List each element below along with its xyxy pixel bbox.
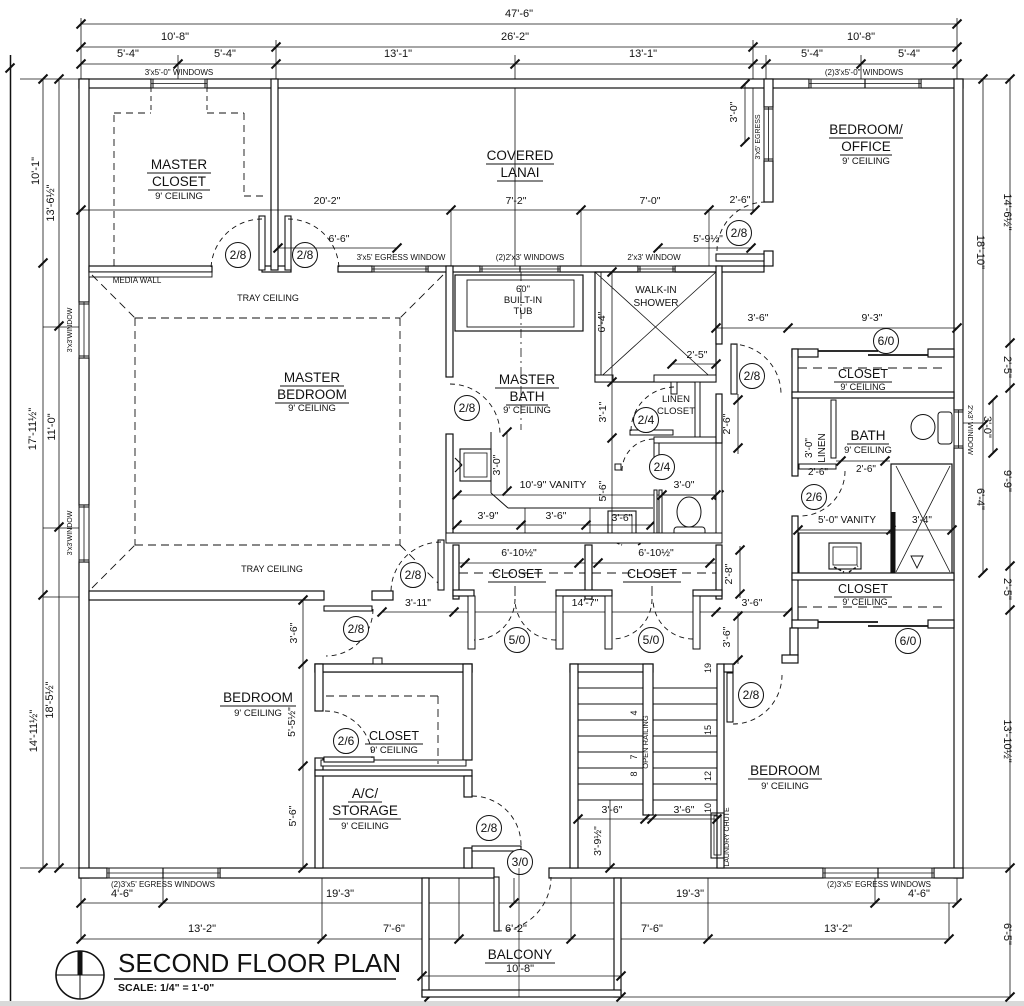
svg-text:20'-2": 20'-2" <box>314 195 341 207</box>
svg-text:13'-10½": 13'-10½" <box>1001 719 1013 762</box>
svg-text:LINEN: LINEN <box>662 394 690 405</box>
svg-text:6'-4": 6'-4" <box>974 488 986 510</box>
sheet border line <box>10 55 12 1006</box>
dim row 47'-6" <box>81 23 957 25</box>
dim 10'-9 vanity <box>457 494 719 496</box>
window 2'x3' right <box>954 410 963 448</box>
door 2/8 bedroom3 arc <box>733 675 782 724</box>
svg-text:6'-10½": 6'-10½" <box>638 547 674 559</box>
svg-text:3'-0": 3'-0" <box>981 416 993 438</box>
master bath west wall <box>446 266 453 377</box>
svg-text:3'x5' EGRESS: 3'x5' EGRESS <box>755 114 762 159</box>
svg-text:7'-6": 7'-6" <box>641 923 663 935</box>
svg-text:2/8: 2/8 <box>743 688 760 702</box>
closet rod dashed right <box>798 367 948 369</box>
svg-text:47'-6": 47'-6" <box>505 8 533 20</box>
door symbol 2/8 hall <box>293 243 318 268</box>
closet2 walls <box>315 664 472 672</box>
svg-text:9' CEILING: 9' CEILING <box>844 445 892 456</box>
door 2/8 bedroom2 arc <box>326 609 373 656</box>
linen2 door leaf <box>799 464 836 469</box>
window 3'x5' top-left <box>151 79 207 88</box>
svg-text:3'-6": 3'-6" <box>748 312 769 324</box>
closet door jambs <box>468 596 475 649</box>
shower 2 <box>891 464 952 574</box>
svg-text:11'-0": 11'-0" <box>46 413 58 440</box>
svg-text:2/8: 2/8 <box>744 369 761 383</box>
door 2/8 hall arc <box>288 219 339 270</box>
door symbol 2/8 master bath <box>455 396 480 421</box>
svg-text:9'-3": 9'-3" <box>862 312 883 324</box>
svg-text:2'-8": 2'-8" <box>723 563 735 584</box>
svg-text:2/8: 2/8 <box>405 568 422 582</box>
door symbol 2/4 upper <box>634 408 659 433</box>
door 2/8 bedroom office arc <box>717 202 766 251</box>
svg-text:BATH: BATH <box>850 428 885 443</box>
dim 2'-5 shower door <box>672 363 716 365</box>
closet south wall segments <box>453 590 474 596</box>
svg-text:3'-6": 3'-6" <box>674 804 695 816</box>
svg-text:SECOND FLOOR PLAN: SECOND FLOOR PLAN <box>118 948 401 978</box>
svg-text:9' CEILING: 9' CEILING <box>840 382 885 392</box>
toilet 2 <box>938 412 952 444</box>
dim row 5'-4" x4 / 13'-1" x2 <box>81 63 957 65</box>
stair treads right <box>653 687 717 689</box>
closets north wall <box>446 533 722 543</box>
dim 3'-9half <box>609 800 611 868</box>
master toilet <box>674 527 705 541</box>
closet1 west wall <box>453 545 459 599</box>
svg-text:8: 8 <box>629 771 639 776</box>
svg-text:6'-5": 6'-5" <box>1001 923 1013 945</box>
svg-text:(2)3'x5' EGRESS WINDOWS: (2)3'x5' EGRESS WINDOWS <box>111 880 215 889</box>
svg-text:2/6: 2/6 <box>338 734 355 748</box>
svg-text:5'-4": 5'-4" <box>117 48 139 60</box>
svg-text:CLOSET: CLOSET <box>627 567 677 581</box>
svg-text:5'-0" VANITY: 5'-0" VANITY <box>818 515 876 526</box>
svg-text:(2)3'x5'-0" WINDOWS: (2)3'x5'-0" WINDOWS <box>825 68 903 77</box>
svg-text:10: 10 <box>703 803 713 813</box>
shower door arc <box>731 344 781 394</box>
svg-text:3'-1": 3'-1" <box>597 401 609 422</box>
media wall shelf <box>89 272 212 277</box>
shower door 2/8 leaf <box>731 344 737 394</box>
svg-text:5'-4": 5'-4" <box>801 48 823 60</box>
bottom dim row 4'-6 / 19'-3 / 19'-3 / 4'-6 <box>81 902 957 904</box>
bath2 door arc <box>800 471 845 516</box>
door symbol 2/6 closet2 <box>334 729 359 754</box>
door 2/6 closet2 leaf <box>324 757 374 762</box>
svg-text:TRAY CEILING: TRAY CEILING <box>241 564 303 574</box>
dim 3'-0 office window <box>744 84 746 142</box>
bifold doors 5/0 closet1 <box>474 599 515 640</box>
dim row 3'-9 / 3'-6 / 3'-6 <box>457 524 651 526</box>
svg-text:3'-0": 3'-0" <box>728 101 740 122</box>
built-in tub <box>455 275 583 331</box>
door symbol 2/8 bedroom2 <box>344 617 369 642</box>
closet3 bypass 6/0 <box>792 620 818 628</box>
vanity2 dim 5'-0 <box>798 529 891 531</box>
svg-text:13'-6½": 13'-6½" <box>45 184 57 221</box>
balcony west wall <box>422 878 429 997</box>
tray ceiling dashed <box>135 317 400 319</box>
svg-text:2/8: 2/8 <box>230 248 247 262</box>
svg-text:13'-1": 13'-1" <box>629 48 657 60</box>
bedroom office west wall <box>764 79 773 107</box>
closet 6/0 bypass doors top <box>792 349 818 357</box>
svg-text:2'-6": 2'-6" <box>730 194 751 206</box>
windows (2)3'x5' bottom-right <box>823 868 934 878</box>
svg-text:14'-6½": 14'-6½" <box>1001 193 1013 230</box>
svg-text:MASTER: MASTER <box>151 157 208 172</box>
svg-text:10'-8": 10'-8" <box>847 31 875 43</box>
svg-text:26'-2": 26'-2" <box>501 31 529 43</box>
windows (2)3'x5' bottom-left <box>107 868 220 878</box>
svg-text:OFFICE: OFFICE <box>841 139 891 154</box>
svg-text:14'-11½": 14'-11½" <box>28 710 40 753</box>
svg-text:4'-6": 4'-6" <box>111 888 133 900</box>
svg-text:7: 7 <box>629 754 639 759</box>
svg-text:9' CEILING: 9' CEILING <box>341 821 389 832</box>
dim 3'-0 vanity return <box>506 432 508 491</box>
vanity counter edge <box>490 432 492 493</box>
dim 6'-6 opening <box>278 247 397 249</box>
svg-text:CLOSET: CLOSET <box>369 729 419 743</box>
dim 5'-9half <box>658 247 751 249</box>
bath south wall <box>792 573 954 580</box>
svg-text:2'-6": 2'-6" <box>721 413 733 434</box>
door symbol 2/6 bath <box>802 485 827 510</box>
svg-text:2'-5": 2'-5" <box>1001 356 1013 378</box>
svg-text:3'-9": 3'-9" <box>478 510 499 522</box>
dim 3'-0 toilet <box>662 494 716 496</box>
door 2/4 linen upper arc <box>631 387 675 431</box>
stairs right wall <box>717 664 724 868</box>
right dim column inner 18'-10 / 6'-4 <box>982 79 984 573</box>
svg-text:BUILT-IN: BUILT-IN <box>504 295 542 306</box>
svg-text:3'-6": 3'-6" <box>288 622 300 643</box>
dim 3'-6 hall side <box>737 612 739 664</box>
linen closet walls <box>630 430 673 435</box>
svg-text:2/6: 2/6 <box>806 490 823 504</box>
svg-text:2'-5": 2'-5" <box>1001 578 1013 600</box>
svg-text:3'-6": 3'-6" <box>721 626 733 647</box>
svg-text:18'-10": 18'-10" <box>974 235 986 269</box>
door symbol 3/0 <box>508 850 533 875</box>
svg-text:2/8: 2/8 <box>731 226 748 240</box>
window 3'x5' egress master bedroom <box>372 266 428 272</box>
bottom wall <box>79 868 107 878</box>
door 2/8 hall-to-closets arc <box>391 542 441 592</box>
door 2/8 bedroom office leaf <box>716 254 764 261</box>
door 2/4 lower arc <box>622 439 654 471</box>
top extension lines <box>80 18 82 79</box>
svg-text:OPEN RAILING: OPEN RAILING <box>641 715 650 769</box>
svg-text:9' CEILING: 9' CEILING <box>288 403 336 414</box>
master bedroom north wall segments <box>89 266 212 272</box>
svg-text:MASTER: MASTER <box>499 372 556 387</box>
door symbol 2/8 office <box>727 221 752 246</box>
svg-text:CLOSET: CLOSET <box>657 406 695 417</box>
svg-text:3'-0": 3'-0" <box>804 438 815 458</box>
door 2/8 hall leaf <box>285 216 291 270</box>
lanai west wall <box>271 79 278 270</box>
closet2 shelf dashed <box>326 695 438 697</box>
svg-text:2/8: 2/8 <box>297 248 314 262</box>
bifold doors 5/0 closet2 <box>612 599 652 639</box>
pocket door master toilet <box>654 490 657 533</box>
svg-text:6'-10½": 6'-10½" <box>501 547 537 559</box>
door 2/8 bedroom2 leaf <box>324 606 372 611</box>
svg-text:STORAGE: STORAGE <box>332 803 398 818</box>
balcony door 3/0 leaf <box>494 877 499 931</box>
dim row 10'-8" / 26'-2" / 10'-8" <box>81 46 957 48</box>
svg-text:9' CEILING: 9' CEILING <box>155 191 203 202</box>
svg-text:3'x3'WINDOW: 3'x3'WINDOW <box>67 510 74 555</box>
right dim window 3'-0 <box>992 400 994 453</box>
A/C storage north wall <box>315 770 472 776</box>
door symbol 2/8 bedroom3 <box>739 683 764 708</box>
stairs center railing <box>643 664 653 815</box>
svg-text:6'-4": 6'-4" <box>596 311 608 332</box>
door 2/8 master closet arc <box>211 219 262 270</box>
svg-text:9'-9": 9'-9" <box>1001 470 1013 492</box>
door 2/8 AC leaf <box>472 846 521 851</box>
svg-text:3'-0": 3'-0" <box>674 479 695 491</box>
svg-text:WALK-IN: WALK-IN <box>635 285 676 296</box>
door symbol 2/8 AC <box>477 816 502 841</box>
svg-text:BEDROOM/: BEDROOM/ <box>829 122 903 137</box>
laundry chute <box>711 813 724 858</box>
right wall <box>954 79 963 410</box>
balcony south wall <box>422 990 621 997</box>
svg-text:6/0: 6/0 <box>878 334 895 348</box>
stairs top wall <box>570 664 653 672</box>
svg-text:3'-11": 3'-11" <box>405 597 431 609</box>
windows (2)3'x5' top-right <box>809 79 921 88</box>
stair treads left <box>578 687 643 689</box>
svg-text:LINEN: LINEN <box>817 433 828 462</box>
north arrow symbol <box>56 951 104 999</box>
top wall <box>79 79 151 88</box>
svg-text:17'-11½": 17'-11½" <box>27 408 39 451</box>
svg-text:(2)2'x3' WINDOWS: (2)2'x3' WINDOWS <box>496 253 564 262</box>
svg-text:CLOSET: CLOSET <box>838 582 888 596</box>
svg-text:9' CEILING: 9' CEILING <box>761 781 809 792</box>
dim row 20'-2 / 7'-2 / 7'-0 / 2'-6 <box>81 209 755 211</box>
window 3'x3' left lower <box>79 505 89 562</box>
svg-text:5'-5½": 5'-5½" <box>286 707 298 737</box>
left connector lines <box>20 78 79 80</box>
svg-text:9' CEILING: 9' CEILING <box>234 708 282 719</box>
closet walls right block <box>792 349 798 476</box>
svg-text:3'x3'WINDOW: 3'x3'WINDOW <box>67 307 74 352</box>
bottom extension lines <box>80 878 82 939</box>
door 2/8 master closet leaf <box>259 216 265 270</box>
svg-text:3'x5' EGRESS WINDOW: 3'x5' EGRESS WINDOW <box>357 253 446 262</box>
dim row stairs 3'-6 3'-6 <box>578 818 717 820</box>
A/C east wall <box>464 776 472 797</box>
svg-text:19: 19 <box>703 663 713 673</box>
interior dim column x303 <box>302 600 304 868</box>
svg-text:15: 15 <box>703 725 713 735</box>
door symbol 6/0 top <box>874 329 899 354</box>
left dim column inner <box>58 79 60 868</box>
closet3 rod dashed <box>798 606 948 608</box>
svg-text:BEDROOM: BEDROOM <box>277 387 347 402</box>
svg-text:3'-6": 3'-6" <box>612 512 633 524</box>
svg-text:13'-1": 13'-1" <box>384 48 412 60</box>
windows (2)2'x3' master bath <box>480 266 560 272</box>
window 3'x5' egress bedroom office <box>764 107 773 161</box>
svg-text:7'-2": 7'-2" <box>506 195 527 207</box>
bedroom3 west wall <box>790 628 798 655</box>
svg-text:3'-9½": 3'-9½" <box>592 826 604 856</box>
svg-text:9' CEILING: 9' CEILING <box>370 745 418 756</box>
vanity back wall <box>446 533 656 540</box>
window 2'x3' master bath <box>638 266 675 272</box>
svg-text:4'-6": 4'-6" <box>908 888 930 900</box>
vanity2 sink <box>829 543 861 569</box>
master closet shelving dashed <box>113 113 115 266</box>
door symbol 2/8 hall upper <box>401 563 426 588</box>
svg-text:BEDROOM: BEDROOM <box>750 763 820 778</box>
dim 6'-10half closet1 <box>459 562 585 564</box>
left dim column outer <box>42 79 44 868</box>
bottom dim line balcony level <box>429 996 1010 998</box>
svg-text:5/0: 5/0 <box>643 633 660 647</box>
door 2/6 closet2 arc <box>325 711 372 758</box>
door 2/8 hall-to-closets leaf <box>438 540 444 590</box>
svg-text:TRAY CEILING: TRAY CEILING <box>237 293 299 303</box>
svg-text:(2)3'x5' EGRESS WINDOWS: (2)3'x5' EGRESS WINDOWS <box>827 880 931 889</box>
svg-text:MASTER: MASTER <box>284 370 341 385</box>
svg-text:BALCONY: BALCONY <box>488 947 553 962</box>
closets east wall <box>716 545 722 599</box>
door symbol 6/0 bottom <box>896 629 921 654</box>
svg-text:10'-1": 10'-1" <box>30 157 42 185</box>
svg-text:6'-6": 6'-6" <box>329 233 350 245</box>
corridor west wall <box>716 266 722 344</box>
walk-in shower curb <box>595 375 613 382</box>
dim 2'-8 closet side <box>739 546 741 598</box>
svg-text:60": 60" <box>516 284 530 295</box>
left window centerline connectors <box>43 326 85 328</box>
svg-text:13'-2": 13'-2" <box>188 923 216 935</box>
balcony door 3/0 arc <box>497 877 551 931</box>
vanity sink 2 box <box>608 511 636 539</box>
svg-text:6/0: 6/0 <box>900 634 917 648</box>
right dim column outer <box>1009 79 1011 997</box>
svg-text:19'-3": 19'-3" <box>676 888 704 900</box>
toilet room walls <box>654 437 717 443</box>
svg-text:2'-6": 2'-6" <box>856 464 876 475</box>
hallway south wall <box>315 664 472 672</box>
vanity2 counter <box>799 533 891 574</box>
svg-text:9' CEILING: 9' CEILING <box>503 405 551 416</box>
svg-text:2/8: 2/8 <box>481 821 498 835</box>
svg-text:10'-8": 10'-8" <box>161 31 189 43</box>
svg-text:4: 4 <box>629 710 639 715</box>
door 2/8 AC arc <box>472 796 521 845</box>
svg-text:3/0: 3/0 <box>512 855 529 869</box>
door 2/8 bedroom3 leaf <box>727 673 733 722</box>
svg-text:9' CEILING: 9' CEILING <box>842 156 890 167</box>
svg-text:LAUNDRY CHUTE: LAUNDRY CHUTE <box>724 807 731 867</box>
door symbol 2/4 lower <box>650 455 675 480</box>
svg-text:10'-8": 10'-8" <box>506 963 534 975</box>
svg-text:12: 12 <box>703 771 713 781</box>
svg-text:7'-6": 7'-6" <box>383 923 405 935</box>
svg-text:5'-6": 5'-6" <box>597 480 609 501</box>
svg-text:2'-5": 2'-5" <box>687 349 708 361</box>
svg-text:MEDIA WALL: MEDIA WALL <box>113 276 162 285</box>
dim 6'-10half closet2 <box>592 562 716 564</box>
left wall <box>79 79 89 302</box>
svg-text:COVERED: COVERED <box>487 148 554 163</box>
svg-text:3'-6": 3'-6" <box>742 597 763 609</box>
svg-text:9' CEILING: 9' CEILING <box>842 597 887 607</box>
balcony east wall <box>614 878 621 997</box>
door 2/4 lower leaf <box>654 441 659 468</box>
svg-text:TUB: TUB <box>514 306 533 317</box>
svg-text:A/C/: A/C/ <box>352 786 379 801</box>
svg-text:2/4: 2/4 <box>638 413 655 427</box>
svg-text:3'-6": 3'-6" <box>546 510 567 522</box>
closet2 inner bottom wall <box>321 760 466 766</box>
svg-text:13'-2": 13'-2" <box>824 923 852 935</box>
hall door jamb <box>373 658 382 668</box>
svg-text:2/8: 2/8 <box>348 622 365 636</box>
svg-text:5'-4": 5'-4" <box>898 48 920 60</box>
vanity dividers <box>524 508 526 533</box>
svg-text:BEDROOM: BEDROOM <box>223 690 293 705</box>
svg-text:2'-6": 2'-6" <box>808 467 828 478</box>
closet rods dashed <box>459 572 585 574</box>
svg-text:LANAI: LANAI <box>500 165 539 180</box>
svg-text:2'x3' WINDOW: 2'x3' WINDOW <box>966 405 975 456</box>
svg-text:18'-5½": 18'-5½" <box>44 681 56 718</box>
svg-text:CLOSET: CLOSET <box>838 367 888 381</box>
dim 3'-6 / 9'-3 row <box>716 327 957 329</box>
bottom dim row 13'-2 / 7'-6 / 6'-2 / 7'-6 / 13'-2 <box>81 938 949 940</box>
vanity sink 1 <box>460 449 491 481</box>
stairs left stringer <box>570 664 578 868</box>
door symbol 2/8 closet <box>226 243 251 268</box>
svg-text:5/0: 5/0 <box>509 633 526 647</box>
sink2 swing dashes <box>612 541 622 545</box>
svg-text:CLOSET: CLOSET <box>152 174 206 189</box>
door symbol 2/8 shower <box>740 364 765 389</box>
svg-text:2/8: 2/8 <box>459 401 476 415</box>
right connector lines <box>963 78 1010 80</box>
wall vanity2/shower2 glass <box>891 512 896 573</box>
svg-text:3'x5'-0" WINDOWS: 3'x5'-0" WINDOWS <box>145 68 214 77</box>
svg-text:7'-0": 7'-0" <box>640 195 661 207</box>
dim 3'-4 shower2 <box>891 529 952 531</box>
svg-text:3'-0": 3'-0" <box>491 454 503 475</box>
dim column 6'-4 / 3'-1 / 5'-6 <box>611 272 613 540</box>
svg-text:19'-3": 19'-3" <box>326 888 354 900</box>
svg-text:5'-6": 5'-6" <box>287 805 299 826</box>
svg-text:2/4: 2/4 <box>654 460 671 474</box>
svg-text:2'x3' WINDOW: 2'x3' WINDOW <box>627 253 681 262</box>
svg-text:CLOSET: CLOSET <box>492 567 542 581</box>
svg-text:10'-9" VANITY: 10'-9" VANITY <box>520 479 587 491</box>
master bedroom south wall <box>89 591 324 600</box>
closet bottom wall / bath north wall <box>792 392 954 398</box>
svg-text:SHOWER: SHOWER <box>634 298 679 309</box>
